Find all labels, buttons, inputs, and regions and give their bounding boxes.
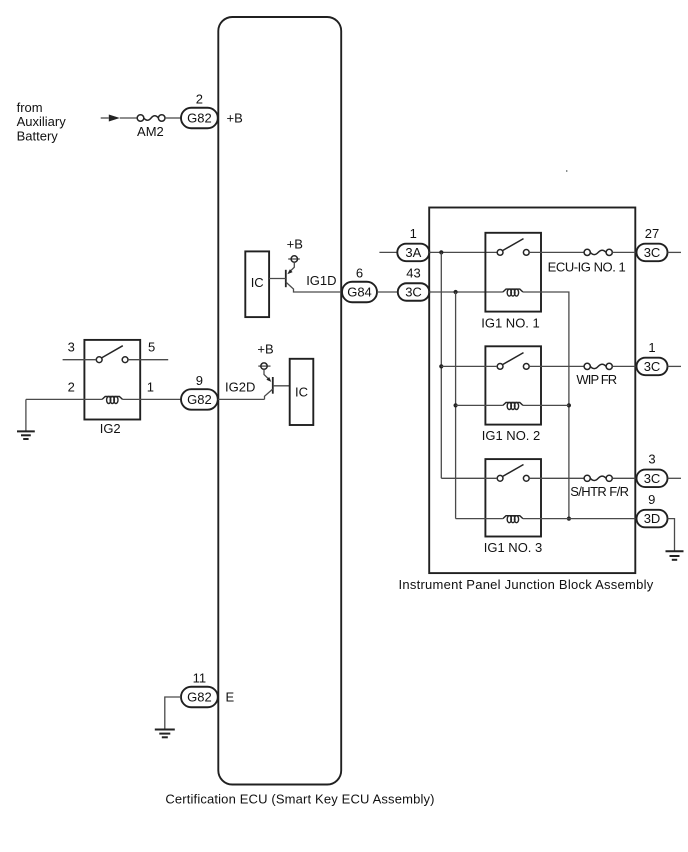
wire V2 to coil3 — [456, 518, 503, 520]
svg-text:IG1 NO. 3: IG1 NO. 3 — [484, 540, 543, 555]
svg-text:+B: +B — [287, 236, 303, 251]
connector G82 (pin 11) — [181, 687, 218, 708]
wire arrow to fuse AM2 — [120, 117, 137, 119]
wire vertical V1 — [440, 252, 442, 478]
svg-text:3: 3 — [68, 340, 75, 355]
svg-text:E: E — [226, 690, 235, 705]
relay IG1 NO.3 — [484, 459, 543, 555]
arrow head — [109, 115, 120, 122]
wire 3A to relay IG1 NO.1 — [429, 251, 497, 253]
svg-text:3C: 3C — [644, 245, 661, 260]
svg-text:1: 1 — [147, 379, 154, 394]
transistor Q1 (IG1D) — [269, 262, 341, 292]
fuse WIP FR — [576, 363, 616, 387]
svg-text:11: 11 — [193, 670, 207, 685]
svg-text:G82: G82 — [187, 111, 212, 126]
svg-text:ECU-IG NO. 1: ECU-IG NO. 1 — [548, 259, 626, 274]
transistor Q2 (IG2D) — [264, 369, 290, 399]
svg-text:3C: 3C — [405, 285, 422, 300]
wire switch2 to fuse — [529, 365, 584, 367]
node C2 junction — [454, 403, 458, 407]
svg-text:27: 27 — [645, 226, 659, 241]
svg-text:1: 1 — [410, 226, 417, 241]
ground (right) — [666, 551, 684, 560]
wire coil1 to vertical V3 — [523, 292, 569, 519]
svg-text:IG2: IG2 — [100, 421, 121, 436]
svg-text:from: from — [17, 100, 43, 115]
svg-text:2: 2 — [68, 379, 75, 394]
svg-text:9: 9 — [196, 373, 203, 388]
switch IG2 — [84, 340, 140, 436]
connector 3A (pin 1) — [397, 244, 429, 262]
svg-text:Certification ECU (Smart Key E: Certification ECU (Smart Key ECU Assembl… — [165, 792, 434, 807]
wire V1 to relay3 switch — [441, 477, 497, 479]
speck — [566, 170, 567, 172]
svg-text:6: 6 — [356, 265, 363, 280]
wire V1 to relay2 switch — [441, 365, 497, 367]
wire switch3 to fuse — [529, 477, 584, 479]
junction block box — [429, 208, 635, 574]
connector 3D (pin 9) — [637, 510, 668, 527]
svg-text:3C: 3C — [644, 359, 661, 374]
svg-text:IG1 NO. 1: IG1 NO. 1 — [481, 315, 540, 330]
connector 3C (pin 1) — [637, 358, 668, 376]
svg-text:3D: 3D — [644, 511, 661, 526]
svg-text:WIP FR: WIP FR — [576, 372, 616, 387]
node C2 right junction — [567, 403, 571, 407]
IC U1 (upper) — [245, 251, 269, 317]
wire fuse to connector G82 pin 2 — [165, 117, 181, 119]
svg-text:G82: G82 — [187, 392, 212, 407]
wire coil2 to V3 — [523, 404, 569, 406]
stub right of 3C-27 — [668, 251, 682, 253]
svg-text:1: 1 — [648, 340, 655, 355]
svg-text:5: 5 — [148, 340, 155, 355]
svg-text:S/HTR F/R: S/HTR F/R — [570, 484, 628, 499]
svg-text:2: 2 — [196, 91, 203, 106]
wire G82-9 to transistor — [218, 398, 265, 400]
wire ground to IG2 coil — [26, 398, 102, 400]
wire fuse to 3C-27 — [612, 251, 636, 253]
svg-text:IC: IC — [251, 275, 264, 290]
svg-text:IG1D: IG1D — [306, 273, 336, 288]
connector 3C (pin 43) — [398, 283, 430, 301]
power terminal (lower +B) — [258, 363, 270, 369]
svg-text:Auxiliary: Auxiliary — [17, 114, 67, 129]
ground (left) — [17, 399, 35, 439]
node C1 junction — [454, 290, 458, 294]
svg-text:9: 9 — [648, 492, 655, 507]
wire G82-11 to ground — [165, 697, 181, 729]
ECU box (Certification ECU) — [218, 17, 341, 785]
svg-text:G84: G84 — [347, 285, 372, 300]
fuse S/HTR F/R — [570, 475, 628, 499]
svg-text:+B: +B — [227, 111, 243, 126]
svg-text:IG2D: IG2D — [225, 380, 255, 395]
stub right of 3C-1 — [668, 365, 682, 367]
wire fuse to 3C-3 — [612, 477, 636, 479]
svg-text:IC: IC — [295, 385, 308, 400]
wire stub left of IG2 switch — [63, 359, 97, 361]
wire fuse to 3C-1 — [612, 365, 636, 367]
wire vertical V2 — [455, 292, 457, 519]
stub right of 3C-3 — [668, 477, 682, 479]
wire coil3 to 3D — [523, 518, 637, 520]
wire 3D to ground — [668, 519, 675, 551]
wire switch1 inside — [529, 251, 584, 253]
connector G82 (pin 2) — [181, 108, 218, 129]
relay IG1 NO.2 — [482, 346, 541, 443]
fuse AM2 — [137, 115, 165, 139]
wire from battery arrow — [101, 117, 109, 119]
connector G84 (pin 6) — [342, 282, 377, 303]
connector G82 (pin 9) — [181, 389, 218, 410]
node C3 right junction — [567, 517, 571, 521]
svg-text:43: 43 — [406, 265, 420, 280]
ground (bottom) — [155, 730, 175, 738]
svg-text:3C: 3C — [644, 471, 661, 486]
svg-text:3: 3 — [648, 452, 655, 467]
wire V2 to coil2 — [456, 404, 503, 406]
relay IG1 NO.1 — [481, 233, 541, 330]
wire stub right of IG2 switch — [128, 359, 168, 361]
IC U2 (lower) — [290, 359, 314, 425]
wire 3C-43 to coil row — [429, 291, 503, 293]
svg-text:Battery: Battery — [17, 129, 59, 144]
wire G84 to 3C — [377, 291, 398, 293]
fuse ECU-IG NO. 1 — [548, 249, 626, 274]
connector 3C (pin 27) — [637, 244, 668, 262]
svg-text:Instrument Panel Junction Bloc: Instrument Panel Junction Block Assembly — [399, 577, 654, 592]
power terminal (upper +B) — [288, 256, 300, 262]
node S2 junction — [439, 364, 443, 368]
svg-text:AM2: AM2 — [137, 124, 164, 139]
connector 3C (pin 3) — [637, 470, 668, 488]
svg-text:+B: +B — [257, 341, 273, 356]
wire IG2 coil to G82 pin 9 — [123, 398, 182, 400]
svg-text:G82: G82 — [187, 690, 212, 705]
svg-text:3A: 3A — [405, 245, 421, 260]
node S1 junction — [439, 250, 443, 254]
svg-text:IG1 NO. 2: IG1 NO. 2 — [482, 428, 541, 443]
stub wire left of 3A — [379, 251, 397, 253]
